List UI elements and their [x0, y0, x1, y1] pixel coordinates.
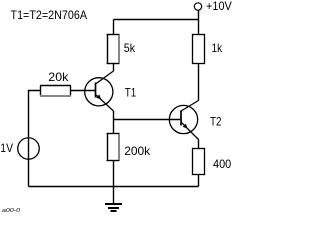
resistor R3 20k: [40, 70, 71, 96]
wire: R3 right to T1 base: [71, 90, 96, 92]
wire: top rail: [114, 19, 199, 21]
wire: R5 bottom to bottom rail: [198, 175, 200, 187]
transistor Q2 T2: [169, 101, 221, 140]
svg-text:5k: 5k: [124, 41, 136, 55]
svg-text:400: 400: [213, 157, 231, 171]
wire: emitter node to T2 base: [114, 119, 182, 121]
wire: V1 through and bottom: [28, 138, 30, 187]
wire: +10V terminal stem: [198, 10, 200, 20]
svg-text:+10V: +10V: [206, 0, 232, 13]
resistor R2 1k: [193, 35, 223, 64]
resistor R5 400: [193, 149, 232, 175]
wire: R4 bottom to ground: [113, 161, 115, 204]
wire: T2 emitter to R5 top: [198, 140, 200, 149]
svg-text:T1: T1: [125, 86, 137, 100]
svg-text:a00-0: a00-0: [2, 208, 21, 214]
resistor R1 5k: [107, 34, 136, 64]
transistor Q1 T1: [85, 71, 137, 111]
source V1 1V: [0, 138, 39, 160]
wire: top rail to R2 top: [198, 20, 200, 35]
wire: R2 bottom to T2 collector: [198, 64, 200, 101]
power terminal +10V: [194, 0, 232, 13]
wire: R1 bottom to T1 collector: [113, 64, 115, 72]
svg-text:T1=T2=2N706A: T1=T2=2N706A: [11, 8, 88, 22]
svg-text:200k: 200k: [124, 144, 151, 158]
resistor R4 200k: [107, 133, 152, 161]
svg-text:1k: 1k: [212, 41, 223, 55]
wire: V1 top to R3 left: [29, 91, 41, 138]
wire: T1 emitter down to R4: [113, 111, 115, 134]
wire: bottom rail: [29, 186, 199, 188]
svg-text:20k: 20k: [48, 70, 69, 84]
wire: top rail to R1 top: [113, 20, 115, 35]
ground: [105, 204, 122, 211]
svg-text:T2: T2: [210, 114, 222, 128]
svg-text:1V: 1V: [0, 141, 13, 155]
